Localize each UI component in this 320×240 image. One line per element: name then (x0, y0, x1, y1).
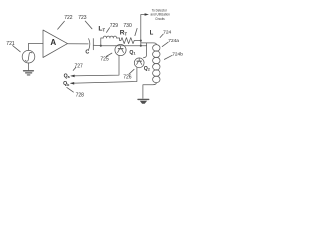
leader 726 (129, 69, 134, 74)
svg-text:Q1: Q1 (129, 50, 135, 56)
leader 729 (107, 28, 110, 33)
wire Q1 emitter to Qa terminal (71, 55, 119, 76)
resistor R_T 730 zigzag (121, 38, 134, 44)
svg-text:C: C (85, 50, 89, 56)
leader 728 (67, 87, 74, 92)
wire source to amp input (29, 43, 44, 50)
svg-text:729: 729 (110, 23, 119, 29)
wire left stub of parallel branch (101, 38, 103, 46)
wire resistor to node B (134, 40, 141, 42)
wire Q2 emitter to Qb terminal (71, 67, 137, 83)
Qa terminal arrowhead (70, 75, 74, 78)
leader 723 (85, 21, 92, 29)
svg-text:724a: 724a (168, 38, 179, 44)
svg-text:Circuits: Circuits (155, 17, 165, 21)
wire main line to transistor Q2 collector (143, 43, 146, 58)
signal source 721 (22, 50, 35, 63)
leader 724b (164, 55, 172, 59)
svg-text:724: 724 (163, 29, 171, 35)
wire vertical to detector arrow (141, 15, 145, 46)
wire coil bottom to ground (143, 83, 157, 99)
transistor Q1 symbol (118, 48, 123, 50)
ground (right, under coil) (138, 98, 149, 100)
Qb terminal arrowhead (70, 82, 74, 85)
svg-text:724b: 724b (172, 51, 183, 57)
wire amp output to capacitor (68, 43, 89, 45)
leader 727 (73, 67, 76, 70)
svg-text:RT: RT (120, 30, 128, 37)
wire main line node A to right (101, 45, 147, 47)
leader 721 (13, 46, 21, 52)
capacitor C 723 flat plate (92, 39, 94, 50)
svg-text:726: 726 (123, 75, 132, 81)
ground (left, under source) (24, 70, 34, 72)
svg-text:Qa: Qa (64, 73, 71, 79)
antenna coil L 724 (153, 45, 160, 52)
svg-text:727: 727 (75, 63, 84, 69)
leader 724a (162, 42, 168, 47)
svg-text:723: 723 (78, 15, 87, 21)
leader 725 (106, 53, 112, 56)
svg-text:L: L (150, 31, 154, 37)
signal source sine glyph (25, 52, 32, 61)
transistor Q2 symbol (137, 60, 142, 62)
node B junction dot (140, 40, 142, 42)
op-amp A (amplifier) (43, 30, 68, 58)
arrow to detector circuits (145, 13, 149, 16)
transistor Q2 circle (134, 58, 144, 68)
svg-text:Q2: Q2 (144, 66, 150, 72)
svg-text:725: 725 (100, 56, 109, 62)
inductor L_T 729 (103, 36, 116, 38)
svg-text:722: 722 (64, 15, 73, 21)
svg-text:730: 730 (123, 23, 132, 29)
leader 722 (58, 21, 65, 29)
svg-text:728: 728 (76, 92, 85, 98)
wire source to ground (28, 63, 30, 70)
leader 730 (135, 28, 137, 35)
svg-text:Qb: Qb (63, 81, 70, 87)
node A junction dot (100, 45, 102, 47)
svg-text:A: A (50, 38, 56, 47)
svg-text:721: 721 (6, 41, 15, 47)
capacitor C 723 curved plate (89, 39, 90, 50)
transistor Q1 circle (115, 44, 126, 55)
wire node to antenna coil top (141, 43, 157, 45)
wire inductor to resistor step (117, 38, 121, 41)
wire capacitor to node A (93, 44, 101, 46)
leader 724 (160, 34, 163, 38)
svg-text:LT: LT (98, 26, 105, 33)
node C junction dot on main line (140, 45, 142, 47)
